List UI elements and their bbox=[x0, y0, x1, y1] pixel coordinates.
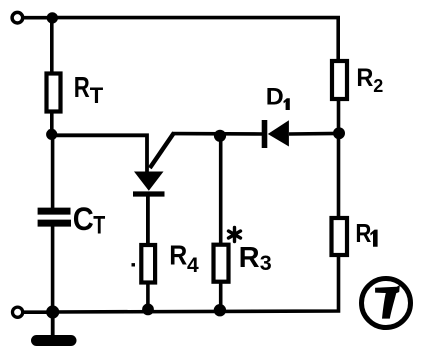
svg-text:R: R bbox=[169, 239, 187, 270]
svg-text:2: 2 bbox=[373, 76, 383, 96]
node A junction dot (top) bbox=[47, 12, 58, 23]
wire RT to node C bbox=[50, 111, 54, 135]
label *R3 bbox=[229, 228, 272, 276]
resistor R4 bbox=[141, 245, 155, 283]
node B junction dot (right) bbox=[333, 127, 345, 139]
wire R2 to node B bbox=[337, 99, 341, 134]
resistor R3 bbox=[214, 245, 229, 282]
svg-text:D: D bbox=[266, 84, 284, 111]
wire node B to R1 bbox=[337, 133, 341, 218]
node C junction dot (left mid) bbox=[46, 129, 57, 140]
resistor RT bbox=[47, 74, 61, 112]
wire gate to D1 bbox=[172, 132, 263, 136]
wire terminal T2 to node D bbox=[24, 310, 53, 314]
capacitor CT bbox=[38, 211, 71, 223]
wire R4 to node G bbox=[146, 283, 150, 311]
wire R1 to bottom rail bbox=[53, 255, 339, 312]
wire R3 to node F bbox=[219, 282, 223, 311]
node D junction dot (bottom-left) bbox=[46, 305, 59, 318]
svg-text:T: T bbox=[93, 211, 105, 239]
svg-text:R: R bbox=[356, 64, 373, 92]
wire node C to CT bbox=[51, 135, 55, 209]
resistor R1 bbox=[332, 218, 348, 255]
terminal T2 (bottom-left) bbox=[13, 307, 23, 317]
label R1 bbox=[355, 218, 377, 248]
wire node A down to RT bbox=[50, 18, 54, 74]
svg-text:C: C bbox=[73, 201, 94, 237]
wire node C to Q1 anode bbox=[52, 135, 147, 172]
label R4 bbox=[169, 239, 199, 277]
label CT bbox=[73, 201, 106, 239]
node G junction dot (bottom R4) bbox=[142, 304, 154, 316]
svg-text:3: 3 bbox=[260, 251, 272, 275]
label D1 bbox=[266, 84, 290, 111]
label RT bbox=[74, 72, 104, 108]
wire Q1 gate diagonal bbox=[150, 133, 174, 168]
svg-text:R: R bbox=[239, 242, 260, 274]
transistor Q1 (PUT, anode top / cathode bottom) bbox=[133, 172, 165, 195]
wire CT to node D bbox=[51, 227, 55, 313]
svg-text:R: R bbox=[74, 72, 90, 104]
resistor R2 bbox=[332, 61, 347, 99]
terminal T1 (top-left input) bbox=[12, 12, 23, 23]
ground bbox=[37, 312, 72, 341]
svg-text:4: 4 bbox=[187, 254, 199, 277]
svg-text:T: T bbox=[90, 83, 104, 108]
wire Q1 cathode to R4 bbox=[146, 193, 150, 245]
figure number 7 (circled) bbox=[362, 279, 411, 328]
svg-text:R: R bbox=[355, 218, 371, 248]
wire top rail bbox=[52, 18, 338, 62]
label R2 bbox=[356, 64, 383, 96]
wire terminal T1 to node A bbox=[23, 16, 52, 20]
stray mark bbox=[132, 263, 136, 266]
node F junction dot (bottom R3) bbox=[214, 304, 226, 316]
diode D1 (cathode bar left, anode right) bbox=[265, 120, 289, 148]
wire D1 to node B bbox=[289, 132, 339, 136]
wire node E to R3 bbox=[219, 135, 223, 245]
node E junction dot (gate/R3) bbox=[214, 130, 226, 142]
